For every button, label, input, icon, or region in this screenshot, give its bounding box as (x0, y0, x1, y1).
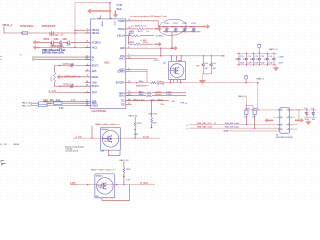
svg-text:C7x: C7x (311, 108, 314, 110)
junction C745 bottom (267, 64, 268, 65)
svg-text:C748: C748 (117, 4, 123, 7)
svg-text:PACK_ID: PACK_ID (238, 95, 247, 98)
svg-text:C279 1uF: C279 1uF (49, 35, 59, 37)
svg-text:12M: 12M (100, 151, 104, 153)
capacitor C744 (258, 53, 261, 65)
svg-text:VCC: VCC (113, 21, 115, 26)
svg-text:WB1: WB1 (54, 39, 60, 41)
IC pin PGND stub right (126, 20, 132, 22)
junction C742 top (246, 53, 247, 54)
svg-text:PROG: PROG (118, 28, 125, 31)
wire VBUS_C input vertical (3, 27, 5, 34)
svg-text:R_CN: R_CN (143, 137, 149, 139)
junction C752 top (184, 26, 185, 27)
svg-text:GND: GND (220, 55, 225, 57)
ferrite bead L801 on VBUS wire (22, 32, 28, 35)
svg-text:ix: ix (186, 103, 187, 105)
wire SMB_BAT_SCL (190, 124, 282, 126)
svg-text:pr 1.9MHz freq lo: pr 1.9MHz freq lo (131, 24, 147, 27)
svg-text:SMB_BAT_SCL: SMB_BAT_SCL (197, 122, 213, 125)
capacitor C791 on SYS (210, 56, 213, 74)
junction C741 top (238, 53, 239, 54)
junction on VAC row (59, 47, 60, 48)
svg-text:SDA1: SDA1 (119, 95, 126, 98)
junction conn top a (246, 109, 247, 110)
wire VBAT vertical to connector (257, 83, 259, 111)
resistor R829 (134, 43, 142, 45)
junction C750 bottom (166, 31, 167, 32)
svg-text:TS2: TS2 (121, 104, 126, 107)
connector wire row2 right (290, 116, 296, 118)
arrow VAC row (33, 46, 40, 50)
wire SMB_BAT_SDA (190, 127, 282, 129)
svg-text:19: 19 (86, 104, 88, 106)
ground right caps (306, 117, 312, 124)
svg-text:10.0ms: 10.0ms (155, 91, 163, 93)
IC pin ILIM_HI stub right (126, 35, 132, 37)
pullup resistor R823 (253, 110, 256, 114)
IC pin COMP1 stub right (126, 70, 132, 72)
IC pin D+ stub left (85, 56, 91, 58)
cap group bottom rail (163, 31, 201, 33)
svg-text:STAT: STAT (92, 92, 98, 95)
svg-text:14: 14 (98, 18, 100, 20)
svg-text:301K: 301K (143, 42, 148, 44)
junction R822 SCL (246, 124, 247, 125)
wire BAT2 (126, 70, 147, 72)
connector pads row 4 (281, 128, 289, 130)
svg-text:no close no position in WP des: no close no position in WP design (C pin… (130, 15, 167, 18)
wire below R836 (151, 124, 153, 126)
svg-text:DF11-8DP-2DS(24): DF11-8DP-2DS(24) (276, 137, 293, 139)
svg-text:12M: 12M (95, 196, 99, 198)
wire R823 down to SDA (254, 115, 256, 128)
capacitor C741 (237, 53, 240, 65)
resistor R827 (134, 121, 136, 127)
connector wire row4 right (290, 128, 298, 130)
svg-text:A_CN: A_CN (76, 136, 82, 139)
svg-text:1.2K: 1.2K (244, 117, 249, 119)
svg-text:C296 1/10uF: C296 1/10uF (51, 46, 64, 48)
IC pin REGN stub left (85, 76, 91, 78)
connector top wire (244, 109, 317, 111)
svg-text:R828: R828 (129, 33, 135, 35)
svg-text:ILIM_HI: ILIM_HI (117, 35, 125, 38)
svg-text:C275 2/2.2uF: C275 2/2.2uF (42, 25, 56, 28)
junction link top (160, 48, 161, 49)
gate loop Q802 (102, 185, 129, 201)
svg-text:27: 27 (128, 103, 130, 105)
junction C790 (203, 55, 204, 56)
svg-text:D-: D- (92, 59, 95, 62)
cap bank bottom rail (237, 64, 277, 66)
capacitor C278 series (60, 41, 62, 45)
svg-text:1: 1 (87, 91, 88, 93)
junction rail2 b (116, 184, 118, 186)
svg-text:GND: GND (120, 47, 125, 50)
wire SDA (126, 95, 146, 97)
IC pin SRN stub left (85, 102, 91, 104)
svg-text:R806 1-4ms: R806 1-4ms (134, 99, 146, 101)
junction dot REGN row (78, 76, 80, 78)
junction C746 bottom (273, 64, 274, 65)
junction C751 bottom (175, 31, 176, 32)
junction C746 top (273, 53, 274, 54)
capacitor C296 series (60, 46, 62, 50)
wire PAC2_S2 down (123, 161, 125, 167)
junction C753 top (193, 26, 194, 27)
svg-text:22: 22 (86, 58, 88, 60)
wire ACDRV row with series caps (40, 41, 51, 43)
resistor R815 on rail (151, 82, 157, 84)
wire D+ pair (34, 56, 91, 58)
wire BAT1 (126, 68, 147, 70)
svg-text:TS1: TS1 (121, 100, 126, 103)
junction at 75,33 (74, 32, 76, 34)
junction Q800 bottom b (180, 82, 181, 83)
transistor Q801 package (101, 128, 121, 151)
svg-text:0 enable default: 0 enable default (65, 150, 78, 153)
junction R832 rail (91, 137, 93, 139)
IC pin BAT2 stub right (126, 68, 132, 70)
resistor R804 vertical (54, 66, 56, 73)
wire BATDRV rail (126, 82, 151, 84)
capacitor C075 series on BTST1 (71, 64, 73, 68)
wire from cap group down to GND wire (171, 32, 173, 48)
power flag VBAT_S (244, 76, 247, 83)
svg-text:VREF: VREF (101, 21, 103, 27)
resistor R811 box (54, 102, 63, 105)
capacitor C742 (245, 53, 248, 65)
svg-text:W: W (250, 59, 252, 61)
wire PROG (126, 28, 137, 30)
svg-text:28: 28 (86, 81, 88, 83)
svg-text:2: 2 (278, 110, 279, 112)
svg-text:GND: GND (92, 82, 97, 85)
arrow battery left (265, 119, 274, 123)
junction R828b rail (123, 184, 125, 186)
svg-text:W: W (256, 59, 258, 61)
junction C761 top (313, 109, 314, 110)
wire R827 to rail (134, 127, 136, 138)
connector pads row 3 (281, 124, 289, 126)
wire BAT vertical to rail (146, 69, 148, 82)
wire ILIM branch row (129, 43, 134, 45)
wire sense row 2 (32, 102, 91, 104)
svg-text:BAT1: BAT1 (119, 57, 125, 60)
red arrow on PAC2_S1 column (134, 127, 136, 130)
junction R827 rail (134, 137, 136, 139)
svg-text:PACK_C+: PACK_C+ (269, 48, 279, 51)
wire PGND to cap group (126, 20, 159, 22)
wire top rail from corner to C748 node (75, 2, 110, 4)
wire current rail 2 (70, 184, 155, 186)
power arrow left at top (88, 9, 112, 14)
svg-text:OTG: OTG (154, 60, 159, 62)
arrow ACDRV row (33, 40, 40, 44)
capacitor C753 vertical (192, 27, 195, 32)
svg-text:REGN: REGN (13, 144, 19, 146)
resistor R828 on ILIM_HI (132, 35, 140, 37)
wire sense row 1 (43, 100, 91, 102)
svg-text:R8xx 10K 1-4ms: R8xx 10K 1-4ms (225, 127, 239, 129)
arrow ILIM right (155, 42, 162, 46)
junction C743 top (253, 53, 254, 54)
wire STAT row (57, 92, 91, 94)
connector stub arcs for differential pair (32, 56, 35, 62)
IC pin TS2 stub right (126, 104, 132, 106)
svg-text:74: 74 (86, 85, 88, 87)
wire TS branch down (151, 101, 153, 118)
wire SCL (126, 92, 146, 94)
svg-text:R836 10K: R836 10K (149, 113, 158, 115)
svg-text:Batt-: Batt- (254, 107, 258, 110)
branch wire down from ILIM (128, 36, 130, 45)
capacitor C743 (252, 53, 255, 65)
arrow PGND right (203, 25, 210, 29)
cap group top rail (158, 26, 203, 28)
IC pin GND stub right (126, 47, 132, 49)
IC pin SDA1 stub right (126, 95, 132, 97)
junction VBAT_S rail (245, 82, 247, 84)
svg-text:SMB_BAT_SDA: SMB_BAT_SDA (197, 126, 213, 129)
capacitor C275 series on VBUS wire (52, 31, 54, 35)
wire vertical feed x=75 (74, 3, 76, 48)
wire BTST2 row (54, 82, 56, 86)
IC pin ACDRV1 stub left (85, 41, 91, 43)
svg-text:2-1ms: 2-1ms (166, 91, 173, 93)
svg-text:WR: WR (48, 103, 52, 105)
svg-text:PAC1_S1: PAC1_S1 (22, 104, 32, 107)
junction C751 top (175, 26, 176, 27)
wire sense row 3 (32, 105, 91, 107)
svg-text:50uF: 50uF (117, 8, 123, 11)
no-stuff ellipse (158, 18, 187, 37)
svg-text:DATA 90- Ohm +10%: DATA 90- Ohm +10% (42, 52, 65, 55)
power arrow down at top (113, 11, 118, 18)
svg-text:C075 0.1uF: C075 0.1uF (63, 64, 75, 66)
IC pin GND3 stub left (85, 105, 91, 107)
svg-text:16: 16 (110, 18, 112, 20)
IC pin BAT1 stub right (126, 57, 132, 59)
svg-text:REGN: REGN (92, 76, 99, 79)
wire DNP column R832 (91, 126, 93, 138)
IC pin D- stub left (85, 59, 91, 61)
svg-text:xx: xx (0, 59, 2, 61)
pullup resistor R822 (245, 110, 248, 114)
junction C741 bottom (238, 64, 239, 65)
svg-text:W: W (235, 59, 237, 61)
svg-text:VAC1: VAC1 (92, 47, 98, 50)
svg-text:13: 13 (86, 41, 88, 43)
wire PACK_ID elbow (246, 105, 253, 107)
svg-text:10.0ms: 10.0ms (155, 94, 163, 96)
Q800 top stubs (170, 56, 172, 62)
IC pin TS1 stub right (126, 100, 132, 102)
resistor R812 box (39, 104, 48, 107)
svg-text:R808: R808 (158, 99, 164, 101)
wire PAC2_S1 down (134, 117, 136, 121)
svg-text:BATDRV: BATDRV (116, 82, 125, 85)
red terminal arrow R836 (151, 125, 153, 128)
ground at SYS caps (199, 74, 205, 84)
svg-text:GND3: GND3 (92, 105, 99, 108)
svg-text:OTGEN: OTGEN (155, 35, 163, 37)
wire right vertical (298, 110, 300, 121)
connector pads row 1 (281, 109, 289, 111)
svg-text:PGND: PGND (118, 20, 125, 23)
transistor Q800 package (168, 62, 185, 80)
junction dot BTST1 row (59, 65, 61, 67)
arrow REGN (57, 75, 63, 79)
junction VBAT rail (257, 82, 259, 84)
svg-text:M018 2/12ns: M018 2/12ns (20, 25, 34, 28)
capacitor C746 (272, 53, 275, 65)
svg-text:U800: U800 (104, 61, 110, 64)
svg-text:1.2K: 1.2K (126, 179, 131, 181)
svg-text:PAC2_S2: PAC2_S2 (120, 159, 130, 162)
arrow battery right (295, 119, 304, 123)
tiny mark bottom left (1, 161, 6, 165)
junction dot BTST2 row (59, 85, 61, 87)
bootstrap wire BTST1 row (55, 65, 91, 67)
svg-text:COMP1: COMP1 (117, 70, 126, 73)
connector J8 body (280, 108, 290, 134)
resistor R820 (146, 92, 152, 94)
junction conn top b (252, 109, 253, 110)
svg-text:VBAT_S: VBAT_S (256, 78, 264, 81)
IC pin BTST2 stub left (85, 85, 91, 87)
transistor Q802 package (95, 174, 115, 198)
svg-text:W: W (264, 59, 266, 61)
wire REGN row (63, 76, 91, 78)
connector pads row 2 (281, 116, 289, 118)
IC pin VBUS1 stub left (85, 29, 91, 31)
wire R828b to rail (123, 174, 125, 185)
cap bank top rail (237, 52, 277, 54)
junction at 75,46 (74, 47, 76, 49)
svg-text:30.1K: 30.1K (138, 31, 144, 33)
resistor R836 (151, 118, 153, 124)
junction on VBUS wire (21, 32, 23, 34)
wire caps bottom right (304, 116, 317, 118)
junction conn top c (257, 109, 258, 110)
junction Q800 stub a (171, 55, 172, 56)
svg-text:BTST1: BTST1 (92, 65, 100, 68)
wire D- pair (34, 59, 91, 61)
wire R822 down to SCL (245, 115, 247, 125)
junction GND-vertical (171, 48, 172, 49)
junction R823 SDA (254, 128, 255, 129)
capacitor C752 vertical (183, 27, 186, 32)
IC top pin VREF stub (100, 15, 102, 19)
IC pin PROG stub right (126, 28, 132, 30)
svg-text:ACDRV1: ACDRV1 (92, 41, 102, 44)
resistor R808 on PROG (137, 28, 145, 30)
wire PACK_ID down (245, 97, 247, 110)
svg-text:W: W (243, 59, 245, 61)
svg-text:4: 4 (87, 64, 88, 66)
capacitor C760 (305, 110, 308, 117)
svg-text:5.2K: 5.2K (59, 108, 64, 110)
resistor R828b (123, 168, 125, 174)
svg-text:M30(4L): M30(4L) (102, 129, 110, 131)
IC pin SCL1 stub right (126, 92, 132, 94)
junction C753 bottom (193, 31, 194, 32)
svg-text:1%: 1% (146, 31, 149, 33)
svg-text:R8xx 10K 1-4ms: R8xx 10K 1-4ms (225, 123, 239, 125)
red bracket sense rows (31, 103, 33, 106)
svg-text:C7x: C7x (304, 108, 307, 110)
resistor R810 box (39, 102, 48, 105)
connector wire row1 right (290, 109, 300, 111)
wire ILIM_HI (126, 35, 132, 37)
IC pin STAT stub left (85, 92, 91, 94)
svg-text:1.2K: 1.2K (134, 134, 139, 136)
svg-text:R_SON: R_SON (140, 183, 148, 185)
svg-text:4.7K: 4.7K (224, 131, 229, 133)
svg-text:6: 6 (278, 124, 279, 126)
svg-text:bq24765RGER: bq24765RGER (92, 111, 107, 113)
IC pin BATDRV stub right (126, 82, 132, 84)
wire VAC row (40, 47, 59, 49)
IC pin SW1 stub left (85, 70, 91, 72)
svg-text:SW1: SW1 (92, 70, 98, 73)
arrow PROG right (155, 27, 162, 31)
wire third row to connector (223, 130, 282, 132)
svg-text:VBUS2: VBUS2 (92, 32, 100, 35)
junction C742 bottom (246, 64, 247, 65)
wire VBUS_C horizontal to U800 pin VBUS2 (4, 32, 91, 34)
IC pin VAC1 stub left (85, 47, 91, 49)
junction C744 bottom (259, 64, 260, 65)
wire down to U800 top pin (109, 3, 111, 19)
resistor R821 (146, 95, 152, 97)
svg-text:1.2K: 1.2K (252, 117, 257, 119)
svg-text:2-1ms: 2-1ms (166, 94, 173, 96)
svg-text:WB1: WB1 (62, 39, 68, 41)
connector wire row3 right (290, 124, 298, 126)
svg-text:24: 24 (86, 69, 88, 71)
svg-text:xx: xx (0, 56, 2, 58)
power flag PACK_C (258, 44, 261, 53)
ground cap bank (273, 65, 279, 71)
capacitor C751 vertical (174, 27, 177, 32)
vertical link GND to SYS (160, 48, 162, 56)
capacitor C790 on SYS (202, 56, 205, 74)
IC pin SRP stub left (85, 100, 91, 102)
capacitor C277 series (52, 41, 54, 45)
svg-text:5: 5 (87, 46, 88, 48)
junction BATDRV (136, 82, 137, 83)
IC pin GND stub left (85, 82, 91, 84)
svg-text:M30(4L): M30(4L) (96, 175, 104, 177)
wire C790 C791 bottom (202, 73, 211, 75)
svg-text:PAC1_S0: PAC1_S0 (22, 102, 32, 105)
junction C791 (211, 55, 212, 56)
svg-text:3: 3 (87, 75, 88, 77)
wire current rail 1 (73, 137, 160, 139)
IC pin OTG stub right (126, 55, 132, 57)
junction C750 top (166, 26, 167, 27)
junction C745 top (267, 53, 268, 54)
capacitor C279 series (68, 41, 70, 45)
wire OTG (126, 57, 158, 59)
capacitor C761 (312, 110, 315, 117)
Q800 bottom stubs (169, 80, 171, 83)
junction C748 node (109, 2, 111, 4)
junction C744 top (259, 53, 260, 54)
